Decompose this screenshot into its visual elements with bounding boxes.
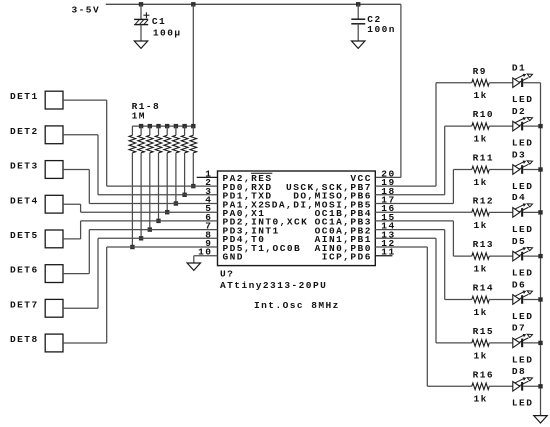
- pin 12 label AIN0,PB0: [315, 243, 372, 254]
- svg-text:D3: D3: [512, 149, 526, 160]
- pin 16 label OC1B,PB4: [315, 208, 372, 219]
- resistor R5 1M: [164, 126, 171, 212]
- pin 11 stub: [375, 255, 392, 257]
- svg-text:DET8: DET8: [10, 334, 39, 345]
- pin number 3: [205, 186, 212, 197]
- svg-text:1k: 1k: [474, 394, 488, 405]
- wire R9 to D1: [489, 82, 513, 84]
- junction R2 to pin row: [139, 236, 143, 240]
- pin 19 label USCK,SCK,PB7: [286, 182, 372, 193]
- ground at LED rail: [534, 416, 547, 423]
- wire D5 to cathode rail: [523, 255, 540, 257]
- wire pin 13 to R15: [375, 238, 472, 343]
- capacitor C2 100n: [351, 4, 396, 41]
- wire DET6 to pin 7: [63, 230, 218, 274]
- resistor R15 1k: [472, 326, 494, 361]
- svg-text:R14: R14: [473, 283, 494, 294]
- svg-text:C1: C1: [152, 16, 166, 27]
- junction R4 to pin row: [156, 219, 160, 223]
- junction R8 to pin row: [191, 184, 195, 188]
- svg-text:DET4: DET4: [10, 195, 39, 206]
- wire R12 to D4: [489, 211, 513, 213]
- pin 1 stub: [197, 176, 218, 178]
- pin 20 label VCC: [350, 173, 371, 184]
- svg-text:D1: D1: [512, 63, 526, 74]
- svg-text:U?: U?: [220, 268, 234, 279]
- svg-text:1k: 1k: [474, 177, 488, 188]
- wire DET1 to pin 2: [63, 100, 218, 186]
- svg-text:D4: D4: [512, 192, 526, 203]
- pin number 16: [381, 203, 395, 214]
- pin number 5: [205, 203, 212, 214]
- svg-text:R10: R10: [473, 109, 494, 120]
- svg-text:LED: LED: [512, 354, 533, 365]
- pin number 19: [381, 177, 395, 188]
- junction R3 to pin row: [148, 227, 152, 231]
- svg-text:R16: R16: [473, 369, 494, 380]
- junction rail at D5: [538, 254, 542, 258]
- pin 2 label PD0,RXD: [223, 182, 273, 193]
- pin number 6: [205, 212, 212, 223]
- resistor R13 1k: [472, 239, 494, 274]
- ground under C1: [134, 41, 147, 48]
- svg-text:DET5: DET5: [10, 230, 39, 241]
- IC U? ATtiny2313-20PU body: [218, 171, 376, 266]
- resistor R9 1k: [472, 66, 490, 101]
- svg-text:1k: 1k: [474, 264, 488, 275]
- svg-text:LED: LED: [512, 311, 533, 322]
- svg-text:DET6: DET6: [10, 265, 39, 276]
- resistor R2 1M: [138, 126, 145, 238]
- pin 7 label PD3,INT1: [223, 225, 280, 236]
- wire pin 18 to R10: [375, 126, 472, 195]
- wire DET2 to pin 3: [63, 135, 218, 195]
- junction bus dot 2: [148, 124, 152, 128]
- svg-text:1k: 1k: [474, 90, 488, 101]
- wire D6 to cathode rail: [523, 299, 540, 301]
- svg-text:DET7: DET7: [10, 299, 39, 310]
- svg-text:D8: D8: [512, 366, 526, 377]
- resistor R1 1M: [129, 126, 136, 247]
- node 3-5V supply rail: [72, 4, 401, 15]
- pin 10 label GND: [223, 252, 244, 263]
- pin 5 label PA0,X1: [223, 208, 266, 219]
- ground under C2: [352, 41, 365, 48]
- IC designator U?: [220, 268, 327, 291]
- LED D8: [512, 366, 533, 409]
- wire pin 16 to R12: [375, 211, 472, 213]
- LED D6: [512, 279, 533, 322]
- svg-text:LED: LED: [512, 224, 533, 235]
- pin number 1: [205, 168, 212, 179]
- wire D4 to cathode rail: [523, 211, 540, 213]
- node DET7 input: [10, 299, 63, 317]
- svg-text:D7: D7: [512, 323, 526, 334]
- pin 15 label OC1A,PB3: [315, 217, 372, 228]
- junction on rail at C1: [139, 2, 143, 6]
- svg-text:100µ: 100µ: [153, 27, 182, 38]
- junction R6 to pin row: [174, 201, 178, 205]
- pin number 9: [205, 238, 212, 249]
- pin number 12: [381, 238, 395, 249]
- resistor R3 1M: [147, 126, 154, 230]
- wire DET4 to pin 5: [63, 204, 218, 212]
- junction bus dot 7: [191, 124, 195, 128]
- wire VCC drop to pin 20: [375, 4, 401, 177]
- pin 14 label OC0A,PB2: [315, 225, 372, 236]
- svg-text:LED: LED: [512, 94, 533, 105]
- pin 1 label PA2,RES: [223, 173, 273, 184]
- wire D1 to cathode rail: [523, 82, 540, 84]
- LED D2: [512, 106, 533, 149]
- LED D4: [512, 192, 533, 235]
- wire R16 to D8: [489, 385, 513, 387]
- resistor R16 1k: [472, 369, 494, 404]
- wire R10 to D2: [489, 125, 513, 127]
- svg-text:1k: 1k: [474, 307, 488, 318]
- svg-text:LED: LED: [512, 268, 533, 279]
- junction bus dot 5: [174, 124, 178, 128]
- svg-text:R15: R15: [473, 326, 494, 337]
- svg-text:1k: 1k: [474, 134, 488, 145]
- wire D7 to cathode rail: [523, 342, 540, 344]
- pin 18 label DO,MISO,PB6: [293, 191, 372, 202]
- LED D1: [512, 63, 533, 106]
- pin number 20: [381, 168, 395, 179]
- resistor R7 1M: [181, 126, 188, 195]
- svg-text:3-5V: 3-5V: [72, 4, 101, 15]
- junction R1 to pin row: [130, 245, 134, 249]
- pin number 14: [381, 221, 395, 232]
- svg-text:LED: LED: [512, 181, 533, 192]
- wire DET7 to pin 8: [63, 238, 218, 308]
- node DET3 input: [10, 161, 63, 179]
- wire pin 17 to R11: [375, 170, 472, 204]
- node DET8 input: [10, 334, 63, 352]
- pin number 13: [381, 229, 395, 240]
- pin 4 label PA1,X2: [223, 199, 266, 210]
- capacitor C1 100u polarized: [134, 4, 181, 41]
- svg-text:D2: D2: [512, 106, 526, 117]
- resistor R1-8 label: [132, 101, 161, 122]
- junction bus dot 4: [165, 124, 169, 128]
- junction on rail at R-network feed: [191, 2, 195, 6]
- pin number 10: [198, 247, 212, 258]
- junction on rail at C2: [356, 2, 360, 6]
- pin 8 label PD4,T0: [223, 234, 266, 245]
- wire D3 to cathode rail: [523, 169, 540, 171]
- svg-text:LED: LED: [512, 398, 533, 409]
- junction bus dot 6: [182, 124, 186, 128]
- node LED cathode rail: [540, 83, 542, 416]
- junction rail at D6: [538, 297, 542, 301]
- pin number 8: [205, 229, 212, 240]
- note Int.Osc 8MHz: [254, 300, 340, 311]
- pin 3 label PD1,TXD: [223, 191, 273, 202]
- wire pin 12 to R16: [375, 247, 472, 386]
- resistor R8 1M: [190, 126, 197, 186]
- resistor R12 1k: [472, 196, 494, 231]
- node DET5 input: [10, 230, 63, 248]
- svg-text:1k: 1k: [474, 350, 488, 361]
- wire D2 to cathode rail: [523, 125, 540, 127]
- wire pin 14 to R14: [375, 230, 472, 300]
- junction R7 to pin row: [182, 193, 186, 197]
- wire DET3 to pin 4: [63, 170, 218, 204]
- svg-text:100n: 100n: [367, 24, 396, 35]
- node DET4 input: [10, 195, 63, 213]
- svg-text:Int.Osc 8MHz: Int.Osc 8MHz: [254, 300, 340, 311]
- svg-text:D6: D6: [512, 279, 526, 290]
- pin number 2: [205, 177, 212, 188]
- resistor R6 1M: [173, 126, 180, 203]
- svg-text:1k: 1k: [474, 220, 488, 231]
- svg-text:DET1: DET1: [10, 91, 39, 102]
- junction rail at D3: [538, 167, 542, 171]
- pin number 4: [205, 195, 212, 206]
- junction rail at D8: [538, 384, 542, 388]
- pin number 18: [381, 186, 395, 197]
- svg-text:R12: R12: [473, 196, 494, 207]
- svg-text:LED: LED: [512, 138, 533, 149]
- pin 6 label PD2,INT0,XCK: [223, 217, 309, 228]
- node DET1 input: [10, 91, 63, 109]
- svg-text:R11: R11: [473, 153, 494, 164]
- junction bus dot 3: [156, 124, 160, 128]
- wire D8 to cathode rail: [523, 385, 540, 387]
- LED D5: [512, 236, 533, 279]
- pin number 15: [381, 212, 395, 223]
- svg-text:D5: D5: [512, 236, 526, 247]
- resistor R14 1k: [472, 283, 494, 318]
- node DET2 input: [10, 126, 63, 144]
- resistor R11 1k: [472, 153, 494, 188]
- wire pin 10 to ground: [194, 256, 218, 263]
- ground at pin 10: [187, 263, 200, 270]
- svg-text:DET3: DET3: [10, 161, 39, 172]
- node R1-8 top bus: [132, 125, 193, 127]
- wire R13 to D5: [489, 255, 513, 257]
- wire pin 19 to R9: [375, 83, 472, 186]
- pin number 17: [381, 195, 395, 206]
- pin number 11: [381, 247, 395, 258]
- svg-text:ATtiny2313-20PU: ATtiny2313-20PU: [220, 280, 327, 291]
- resistor R10 1k: [472, 109, 494, 144]
- junction bus dot 1: [139, 124, 143, 128]
- wire R14 to D6: [489, 299, 513, 301]
- pin 9 label PD5,T1,OC0B: [223, 243, 302, 254]
- pin 13 label AIN1,PB1: [315, 234, 372, 245]
- LED D7: [512, 323, 533, 366]
- wire R11 to D3: [489, 169, 513, 171]
- wire R15 to D7: [489, 342, 513, 344]
- svg-text:R9: R9: [473, 66, 487, 77]
- wire supply feed to R1-8 bus: [192, 4, 194, 126]
- pin 17 label SDA,DI,MOSI,PB5: [265, 199, 372, 210]
- junction R5 to pin row: [165, 210, 169, 214]
- svg-text:ICP,PD6: ICP,PD6: [322, 252, 372, 263]
- LED D3: [512, 149, 533, 192]
- svg-text:1M: 1M: [132, 110, 146, 121]
- pin number 7: [205, 221, 212, 232]
- junction rail at D4: [538, 210, 542, 214]
- junction rail at D7: [538, 341, 542, 345]
- wire DET5 to pin 6: [63, 221, 218, 239]
- junction rail at D2: [538, 124, 542, 128]
- svg-text:R13: R13: [473, 239, 494, 250]
- wire DET8 to pin 9: [63, 247, 218, 343]
- svg-text:DET2: DET2: [10, 126, 39, 137]
- resistor R4 1M: [155, 126, 162, 221]
- pin 11 label ICP,PD6: [322, 252, 372, 263]
- wire pin 15 to R13: [375, 221, 472, 256]
- node DET6 input: [10, 265, 63, 283]
- svg-text:GND: GND: [223, 252, 244, 263]
